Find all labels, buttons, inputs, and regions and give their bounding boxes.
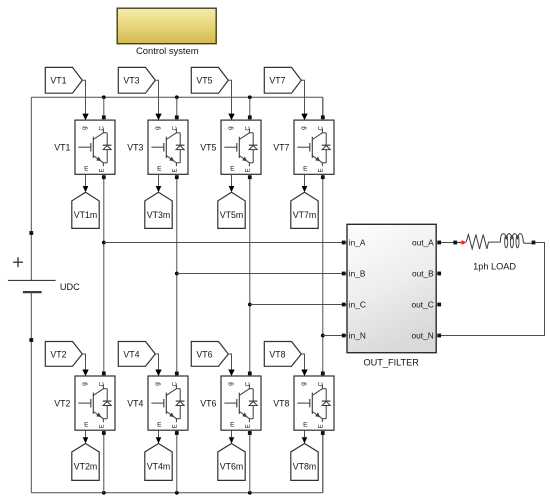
svg-text:VT8: VT8 (269, 349, 285, 359)
svg-text:VT1: VT1 (50, 76, 66, 86)
goto tag VT2m (72, 444, 99, 481)
svg-text:VT2: VT2 (50, 349, 66, 359)
svg-text:g: g (81, 126, 88, 130)
svg-text:C: C (245, 381, 252, 386)
svg-text:in_B: in_B (349, 268, 366, 278)
wire VT8 gate signal (301, 354, 307, 376)
from tag VT6 (191, 342, 228, 367)
port out_N (437, 334, 441, 338)
svg-text:in_C: in_C (349, 299, 366, 309)
goto tag VT8m (291, 444, 318, 481)
svg-text:VT3: VT3 (123, 76, 139, 86)
label VT7 (273, 142, 289, 152)
from tag VT1 (45, 67, 82, 93)
port E VT5 (248, 175, 252, 179)
wire phase N to in_N (323, 335, 347, 337)
port C VT4 (175, 372, 179, 376)
label VT4 (127, 398, 143, 408)
wire phase leg C (E of VT5 to C of VT6) (249, 174, 251, 376)
port C VT2 (102, 372, 106, 376)
wire m output VT1 (83, 174, 89, 192)
junction phase node A (102, 241, 106, 245)
wire m output VT8 (302, 430, 308, 443)
IGBT VT5 (U5) (221, 120, 261, 174)
port load right terminal (532, 241, 536, 245)
svg-text:E: E (230, 422, 235, 429)
IGBT VT7 (U7) (294, 120, 334, 174)
block OUT_FILTER (347, 224, 436, 367)
svg-text:out_B: out_B (412, 268, 434, 278)
IGBT VT3 (U3) (148, 120, 188, 174)
battery UDC (8, 257, 80, 292)
svg-text:VT4m: VT4m (147, 462, 170, 472)
wire phase leg D (E of VT7 to C of VT8) (322, 174, 324, 376)
port battery - terminal (29, 338, 33, 342)
svg-text:VT7: VT7 (273, 142, 289, 152)
IGBT VT2 (U2) (75, 376, 115, 430)
port E VT6 (248, 431, 252, 435)
svg-text:g: g (154, 382, 161, 386)
goto tag VT1m (72, 192, 99, 228)
wire E port VT2 to DC- bus (103, 430, 105, 492)
svg-text:E: E (246, 424, 252, 428)
svg-text:OUT_FILTER: OUT_FILTER (363, 358, 419, 368)
svg-text:VT3m: VT3m (147, 210, 170, 220)
port out_B (437, 272, 441, 276)
label VT6 (200, 398, 216, 408)
svg-text:E: E (303, 166, 308, 173)
wire m output VT3 (156, 174, 162, 192)
from tag VT3 (118, 67, 155, 93)
wire phase leg A (E of VT1 to C of VT2) (103, 174, 105, 376)
port in_C (342, 303, 346, 307)
junction bottom bus node 1 (102, 491, 106, 495)
IGBT VT6 (U6) (221, 376, 261, 430)
svg-text:VT1m: VT1m (74, 210, 97, 220)
label VT3 (127, 142, 143, 152)
label VT8 (273, 398, 289, 408)
port out_C (437, 303, 441, 307)
svg-text:out_A: out_A (412, 237, 434, 247)
port E VT8 (321, 431, 325, 435)
wire C port VT7 (322, 97, 324, 120)
svg-text:g: g (154, 126, 161, 130)
svg-text:C: C (245, 126, 252, 131)
svg-text:in_A: in_A (349, 237, 366, 247)
goto tag VT5m (218, 192, 245, 228)
from tag VT5 (191, 67, 228, 93)
from tag VT8 (264, 342, 301, 367)
svg-text:E: E (157, 422, 162, 429)
label VT2 (54, 398, 70, 408)
svg-text:VT3: VT3 (127, 142, 143, 152)
svg-text:VT4: VT4 (127, 398, 143, 408)
port C VT6 (248, 372, 252, 376)
wire DC+ rail (top bus) (31, 97, 323, 120)
junction phase node C (248, 303, 252, 307)
wire C port VT3 (176, 97, 178, 120)
port out_A (437, 241, 441, 245)
wire C port VT1 (103, 97, 105, 120)
svg-text:VT5: VT5 (196, 76, 212, 86)
port C VT3 (175, 115, 179, 119)
wire E port VT8 to DC- bus (322, 430, 324, 492)
junction top bus node 1 (102, 95, 106, 99)
svg-text:out_C: out_C (412, 299, 434, 309)
junction phase node D (321, 334, 325, 338)
wire m output VT2 (83, 430, 89, 443)
wire VT1 gate signal (82, 80, 88, 120)
load 1ph LOAD (series RL branch) (457, 234, 531, 272)
port C VT8 (321, 372, 325, 376)
goto tag VT4m (145, 444, 172, 481)
wire m output VT5 (229, 174, 235, 192)
port E VT7 (321, 175, 325, 179)
wire VT3 gate signal (155, 80, 161, 120)
wire VT7 gate signal (301, 80, 307, 120)
svg-text:VT7m: VT7m (293, 210, 316, 220)
svg-text:VT5m: VT5m (220, 210, 243, 220)
from tag VT4 (118, 342, 155, 367)
port in_A (342, 241, 346, 245)
svg-text:VT2: VT2 (54, 398, 70, 408)
junction phase node B (175, 272, 179, 276)
svg-text:E: E (173, 424, 179, 428)
svg-text:E: E (230, 166, 235, 173)
port in_B (342, 272, 346, 276)
port load left terminal (453, 241, 457, 245)
wire C port VT5 (249, 97, 251, 120)
svg-text:C: C (172, 381, 179, 386)
IGBT VT1 (U1) (75, 120, 115, 174)
svg-text:Control system: Control system (136, 45, 199, 56)
svg-text:g: g (227, 126, 234, 130)
IGBT VT8 (U8) (294, 376, 334, 430)
svg-text:in_N: in_N (349, 330, 366, 340)
svg-text:VT6m: VT6m (220, 462, 243, 472)
wire E port VT6 to DC- bus (249, 430, 251, 492)
port C VT5 (248, 115, 252, 119)
svg-text:VT6: VT6 (196, 349, 212, 359)
from tag VT2 (45, 342, 82, 367)
wire phase A to in_A (104, 242, 347, 244)
wire VT5 gate signal (228, 80, 234, 120)
svg-text:VT8m: VT8m (293, 462, 316, 472)
wire out_A to load (441, 242, 453, 244)
svg-text:VT5: VT5 (200, 142, 216, 152)
port C VT1 (102, 115, 106, 119)
port E VT4 (175, 431, 179, 435)
wire battery negative lead (30, 292, 32, 493)
port E VT1 (102, 175, 106, 179)
block Control system (117, 8, 216, 56)
svg-text:E: E (84, 166, 89, 173)
svg-text:g: g (227, 382, 234, 386)
svg-text:C: C (318, 126, 325, 131)
junction bottom bus node 3 (248, 491, 252, 495)
svg-text:E: E (100, 168, 106, 172)
svg-text:C: C (172, 126, 179, 131)
port in_N (342, 334, 346, 338)
port battery + terminal (29, 231, 33, 235)
svg-text:VT8: VT8 (273, 398, 289, 408)
junction top bus node 3 (248, 95, 252, 99)
label VT1 (54, 142, 70, 152)
wire m output VT6 (229, 430, 235, 443)
wire m output VT4 (156, 430, 162, 443)
svg-text:g: g (300, 382, 307, 386)
wire VT4 gate signal (155, 354, 161, 376)
svg-text:g: g (81, 382, 88, 386)
svg-text:E: E (157, 166, 162, 173)
svg-text:VT2m: VT2m (74, 462, 97, 472)
goto tag VT3m (145, 192, 172, 228)
port E VT2 (102, 431, 106, 435)
svg-text:VT4: VT4 (123, 349, 139, 359)
svg-text:E: E (319, 168, 325, 172)
svg-text:E: E (319, 424, 325, 428)
svg-text:VT1: VT1 (54, 142, 70, 152)
svg-text:E: E (246, 168, 252, 172)
wire phase B to in_B (177, 273, 347, 275)
wire E port VT4 to DC- bus (176, 430, 178, 492)
wire battery positive lead (30, 97, 32, 280)
svg-text:E: E (100, 424, 106, 428)
svg-text:C: C (318, 381, 325, 386)
port E VT3 (175, 175, 179, 179)
junction bottom bus node 2 (175, 491, 179, 495)
wire VT2 gate signal (82, 354, 88, 376)
IGBT VT4 (U4) (148, 376, 188, 430)
svg-text:C: C (99, 126, 106, 131)
label VT5 (200, 142, 216, 152)
from tag VT7 (264, 67, 301, 93)
svg-text:E: E (303, 422, 308, 429)
svg-text:VT7: VT7 (269, 76, 285, 86)
svg-text:UDC: UDC (60, 282, 80, 292)
junction top bus node 2 (175, 95, 179, 99)
svg-text:out_N: out_N (412, 330, 434, 340)
svg-text:g: g (300, 126, 307, 130)
svg-text:E: E (173, 168, 179, 172)
wire m output VT7 (302, 174, 308, 192)
wire load return to out_N (441, 243, 544, 336)
wire DC- rail (bottom bus) (31, 430, 323, 492)
svg-text:VT6: VT6 (200, 398, 216, 408)
svg-text:E: E (84, 422, 89, 429)
wire phase C to in_C (250, 304, 347, 306)
goto tag VT7m (291, 192, 318, 228)
svg-text:C: C (99, 381, 106, 386)
wire VT6 gate signal (228, 354, 234, 376)
port C VT7 (321, 115, 325, 119)
svg-text:1ph LOAD: 1ph LOAD (473, 261, 516, 271)
goto tag VT6m (218, 444, 245, 481)
wire phase leg B (E of VT3 to C of VT4) (176, 174, 178, 376)
